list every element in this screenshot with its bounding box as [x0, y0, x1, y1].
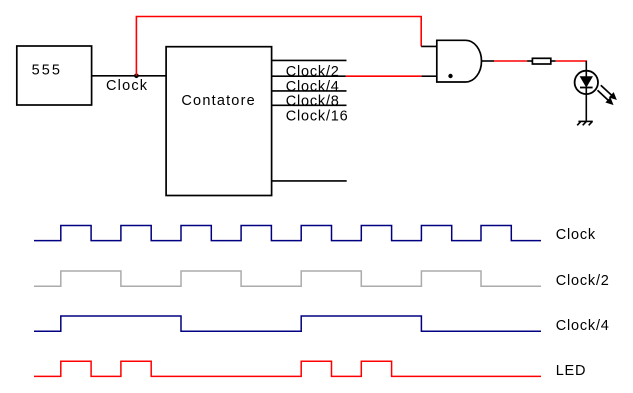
- svg-text:LED: LED: [556, 363, 587, 379]
- wire counter output Q1: [272, 75, 346, 77]
- svg-text:Clock: Clock: [556, 227, 596, 243]
- wire AND gate output stub: [482, 60, 495, 62]
- dot inside AND gate: [448, 74, 452, 78]
- svg-text:Clock: Clock: [106, 78, 148, 94]
- wire resistor to LED corner (red): [556, 60, 587, 62]
- wire LED anode to ground: [585, 61, 587, 121]
- wire AND gate top input stub: [421, 45, 437, 47]
- wire counter bottom output: [272, 180, 347, 182]
- node Clock junction: [134, 74, 139, 79]
- wire gate output to resistor (red): [494, 60, 527, 62]
- ground: [577, 121, 593, 125]
- LED D1: [575, 71, 598, 94]
- waveform Clock trace: [34, 226, 541, 241]
- svg-text:555: 555: [32, 63, 62, 79]
- svg-text:Clock/16: Clock/16: [286, 108, 349, 124]
- svg-text:Clock/2: Clock/2: [286, 64, 340, 80]
- wire resistor left stub: [527, 60, 532, 62]
- wire counter output Q0: [272, 59, 347, 61]
- wire resistor right stub: [551, 60, 556, 62]
- wire Clock/4 to AND gate bottom input (red): [346, 75, 422, 77]
- svg-text:Clock/2: Clock/2: [556, 273, 610, 289]
- svg-text:Contatore: Contatore: [181, 93, 255, 109]
- waveform LED trace: [34, 361, 541, 376]
- svg-text:Clock/8: Clock/8: [286, 93, 340, 109]
- LED light emission arrows: [598, 85, 617, 104]
- wire AND gate bottom input stub: [422, 75, 438, 77]
- wire counter output Q2: [272, 90, 347, 92]
- resistor R1: [532, 58, 550, 64]
- wire counter output Q3: [272, 104, 347, 106]
- wire Clock to AND gate top input (red): [136, 17, 421, 76]
- wire 555 output to counter: [92, 75, 167, 77]
- waveform Clock/2 trace: [34, 271, 541, 286]
- IC U1 555 timer: [17, 46, 92, 105]
- waveform Clock/4 trace: [34, 316, 541, 331]
- svg-text:Clock/4: Clock/4: [556, 318, 610, 334]
- and-gate U3: [437, 40, 482, 82]
- IC U2 counter Contatore: [166, 47, 272, 196]
